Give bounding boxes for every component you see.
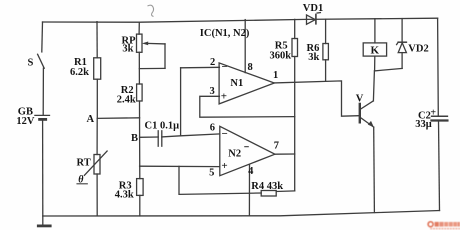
op-amp N1 xyxy=(219,63,274,104)
thermistor RT xyxy=(77,151,107,184)
watermark logo xyxy=(428,222,460,230)
svg-text:3k: 3k xyxy=(122,44,133,55)
wire K/VD2 junction xyxy=(375,68,403,71)
potentiometer RP xyxy=(137,34,166,69)
svg-text:N1: N1 xyxy=(230,78,243,89)
wire R1 top lead xyxy=(96,22,98,58)
svg-text:−: − xyxy=(222,128,228,140)
svg-text:θ: θ xyxy=(78,174,84,185)
wire VD2 top lead xyxy=(401,19,403,43)
svg-text:S: S xyxy=(28,57,34,68)
svg-text:4.3k: 4.3k xyxy=(115,190,134,201)
wire K top lead xyxy=(374,19,376,43)
svg-text:33μ: 33μ xyxy=(415,119,432,130)
svg-text:K: K xyxy=(371,45,380,57)
wire N1 pin 8 xyxy=(244,20,246,73)
wire R3 to bottom rail xyxy=(139,195,141,216)
wire battery to bottom rail xyxy=(42,121,44,216)
wire emitter to bottom rail xyxy=(373,127,376,212)
wire N2 pin 4 to bottom rail xyxy=(248,165,250,216)
svg-text:3: 3 xyxy=(210,86,215,97)
svg-text:3k: 3k xyxy=(308,52,319,63)
capacitor C1 xyxy=(158,131,162,146)
op-amp N2 xyxy=(220,126,275,175)
wire N1 pin 3 jog xyxy=(200,96,295,117)
resistor R3 xyxy=(137,179,144,196)
battery GB xyxy=(35,115,50,119)
wire N2 output xyxy=(275,153,295,155)
node B wire to C1 xyxy=(140,136,159,138)
svg-text:6.2k: 6.2k xyxy=(70,67,89,78)
svg-text:A: A xyxy=(87,114,95,125)
wire RT to bottom rail xyxy=(96,174,98,216)
wire RP to R2 xyxy=(138,52,140,84)
svg-text:V: V xyxy=(356,93,364,104)
wire RP top lead xyxy=(138,22,140,34)
wire R1 bottom to node A xyxy=(96,79,98,118)
resistor R4 xyxy=(179,166,295,196)
wire N1 pin 2 xyxy=(181,66,220,69)
resistor R1 xyxy=(94,58,101,79)
svg-text:N2: N2 xyxy=(228,149,241,160)
wire N1 output to base xyxy=(274,81,358,116)
wire N2 pin 5 xyxy=(140,165,220,167)
transistor V xyxy=(360,101,374,127)
wire R5 top lead xyxy=(294,19,296,38)
svg-text:+: + xyxy=(221,90,227,102)
node A wire xyxy=(97,117,139,120)
resistor R5 xyxy=(292,39,298,57)
svg-text:−: − xyxy=(222,61,228,73)
ground xyxy=(38,216,50,226)
wire VD2 bottom lead xyxy=(401,53,403,69)
wire right rail lower xyxy=(439,121,440,211)
svg-text:+: + xyxy=(221,160,227,172)
svg-text:8: 8 xyxy=(248,62,253,73)
wire bottom rail xyxy=(43,211,440,217)
wire collector xyxy=(373,71,374,101)
svg-text:C1 0.1μ: C1 0.1μ xyxy=(145,121,180,132)
svg-text:R4 43k: R4 43k xyxy=(251,181,283,192)
svg-text:VD1: VD1 xyxy=(303,3,323,14)
wire top rail xyxy=(43,18,438,22)
svg-text:R5: R5 xyxy=(275,40,288,51)
svg-text:5: 5 xyxy=(209,168,214,179)
diode VD1 xyxy=(307,13,321,25)
svg-text:RT: RT xyxy=(77,157,91,168)
svg-text:12V: 12V xyxy=(16,116,35,127)
svg-text:VD2: VD2 xyxy=(408,43,428,54)
wire R5 bottom long vertical xyxy=(294,57,296,191)
svg-text:360k: 360k xyxy=(270,51,292,62)
resistor R2 xyxy=(137,84,143,101)
svg-text:2: 2 xyxy=(210,57,215,68)
svg-text:2.4k: 2.4k xyxy=(117,94,136,105)
wire node B to pin5 branch and R3 xyxy=(139,137,141,178)
svg-text:1: 1 xyxy=(273,70,278,81)
zener diode VD2 xyxy=(397,42,407,52)
wire C1 to N2 pin 6 xyxy=(162,134,220,137)
wire switch to battery xyxy=(42,68,44,115)
wire left rail top stub xyxy=(41,22,44,52)
wire R2 bottom to node B xyxy=(139,101,141,137)
relay K xyxy=(363,43,386,56)
capacitor C2 xyxy=(432,116,448,120)
wire R6 top lead xyxy=(325,19,327,43)
resistor R6 xyxy=(323,44,329,60)
scan mark squiggle xyxy=(148,5,154,16)
wire R6 bottom xyxy=(325,60,327,81)
svg-text:6: 6 xyxy=(210,122,215,133)
switch S xyxy=(38,54,45,68)
wire tie pin2 to pin6 xyxy=(180,68,182,136)
wire node A to RT xyxy=(96,118,98,154)
svg-text:IC(N1, N2): IC(N1, N2) xyxy=(200,28,250,39)
svg-text:⁻: ⁻ xyxy=(244,144,250,155)
wire right rail upper xyxy=(437,18,440,116)
svg-text:4: 4 xyxy=(248,166,254,177)
svg-text:+: + xyxy=(430,107,436,118)
wire K bottom xyxy=(374,56,376,71)
svg-text:7: 7 xyxy=(274,140,279,151)
svg-text:B: B xyxy=(131,133,138,144)
